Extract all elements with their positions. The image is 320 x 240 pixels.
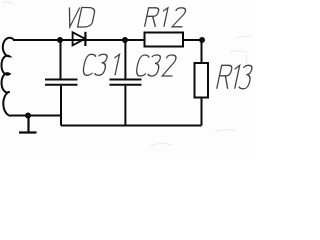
label R13 xyxy=(217,65,253,89)
wire C31 top lead xyxy=(60,40,62,79)
ground xyxy=(19,116,37,133)
label C31 xyxy=(82,54,120,75)
diode VD cathode bar xyxy=(84,32,86,46)
wire bottom-left xyxy=(11,115,61,117)
wire C32 top lead xyxy=(124,40,126,79)
wire C31 bottom lead xyxy=(60,86,62,126)
node C31 top xyxy=(57,37,63,43)
capacitor C32 xyxy=(110,80,142,85)
diode VD xyxy=(73,32,85,45)
wire R13 bottom lead xyxy=(201,98,203,126)
node R13 top xyxy=(199,37,205,43)
label C32 xyxy=(135,55,177,76)
label VD xyxy=(65,8,95,28)
wire bottom rail xyxy=(61,124,202,126)
resistor R12 xyxy=(145,33,184,47)
label R12 xyxy=(145,8,187,27)
node ground junction xyxy=(25,113,31,119)
node C32 top xyxy=(122,37,128,43)
wire C32 bottom lead xyxy=(124,86,126,126)
wire R13 top lead xyxy=(201,40,203,63)
inductor L1 xyxy=(1,38,14,116)
resistor R13 xyxy=(195,63,209,98)
capacitor C31 xyxy=(45,80,78,85)
wire top rail xyxy=(13,39,202,41)
